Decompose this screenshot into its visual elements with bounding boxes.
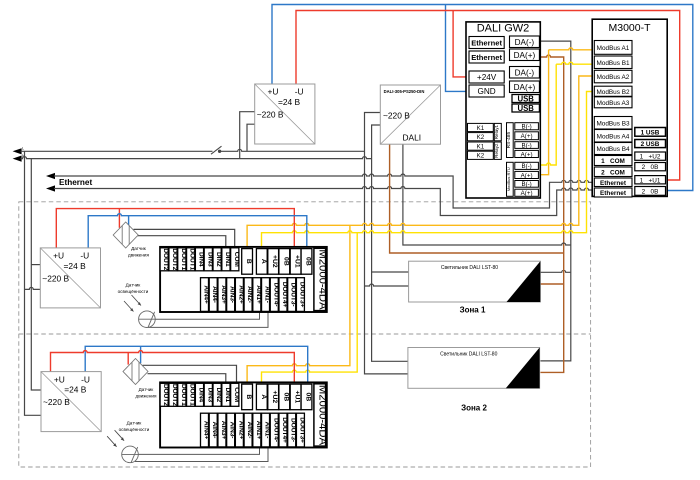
dashed divider between zone 1 and zone 2 sections [19,333,591,335]
GW2 terminal DA(+) [510,49,540,61]
zone2 M2000-4DA terminal 0В [301,384,312,410]
switch SA on L line [211,146,222,154]
I/O module zone2 M2000-4DA: M2000-4DA outline [160,382,327,447]
svg-text:DA(+): DA(+) [514,83,536,92]
wire: middle light sensor to AIN1+ [155,312,259,320]
svg-text:~220 В: ~220 В [257,110,284,120]
power supply PSU2 (middle section) [40,248,100,308]
svg-text:AIN1-: AIN1- [264,422,271,439]
middle M2000-4DA terminal AIN4- (bottom row) [209,278,217,312]
svg-text:DA(+): DA(+) [514,51,536,60]
wire: blue +U of PSU1 up over top to M3000-T 2 0B [272,5,693,191]
GW2 relay1 label [494,123,501,140]
GW2 relay contact K1 [468,142,494,150]
wire: N branch to PSU2 upper input [31,264,40,266]
M3000-T terminal 1 COM [594,156,632,166]
svg-text:ModBus B1: ModBus B1 [596,60,629,67]
svg-text:+U2: +U2 [271,391,278,404]
svg-text:0В: 0В [282,257,289,266]
svg-text:AIN4+: AIN4+ [203,285,210,304]
middle M2000-4DA terminal 0В [279,249,290,275]
svg-text:B(-): B(-) [521,181,531,188]
GW2 RS-485 terminal B(-) [515,123,539,130]
wire: red -U of PSU1 up over top to M3000-T 1 +U1 [296,11,680,181]
M3000-T terminal 1 +U1 [635,176,666,184]
middle M2000-4DA title M2000-4DA [314,248,326,310]
middle M2000-4DA terminal DOUT3+ (bottom row) [296,278,304,312]
wire: DA(+) brown bus from GW2 down to lamp2 [540,55,563,372]
svg-text:=24 В: =24 В [64,385,87,395]
wire: yellow vertical into GW2 ModBus RTU B(-) [540,64,556,165]
svg-text:ModBus A2: ModBus A2 [597,74,630,81]
wire: N line from feeder arrow to vertical drop at x=371.6 [21,157,372,159]
wire: L vertical at left edge down to PSU3 lower input [25,151,42,415]
svg-text:DOUT3+: DOUT3+ [298,282,305,308]
svg-text:Ethernet: Ethernet [471,53,502,62]
wire: red +U of PSU2 to middle M2000 +U1 [56,209,294,249]
M3000-T terminal ModBus B1 [594,56,632,69]
svg-text:AIN2+: AIN2+ [237,421,244,440]
wire: PSU1 upper input to N line [240,112,255,159]
svg-text:M2000-4DA: M2000-4DA [317,249,329,310]
M3000-T terminal ModBus B3 [594,117,632,130]
M3000-T terminal 2 0В [635,163,666,171]
wire: PSU1 lower input to L line [247,124,255,151]
svg-text:DIN2: DIN2 [215,252,222,267]
luminaire zone 1: Светильник DALI LST-80 [409,261,541,302]
zone2 M2000-4DA terminal DOUT3+ (bottom row) [296,413,304,447]
svg-text:Relay1: Relay1 [494,125,499,140]
svg-text:L: L [22,146,24,150]
middle M2000-4DA terminal AIN4+ (bottom row) [201,278,209,312]
middle M2000-4DA terminal AIN2- (bottom row) [244,278,252,312]
GW2 ModBus RTU terminal B(-) [515,181,539,188]
svg-text:2 COM: 2 COM [601,169,625,176]
wire: DA(-) branch to lamp1 [540,270,571,272]
svg-text:0В: 0В [305,393,312,402]
svg-text:Ethernet: Ethernet [471,38,502,47]
svg-text:DOUT4+: DOUT4+ [281,282,288,308]
zone2 M2000-4DA terminal +U2 [268,384,279,410]
svg-text:A(+): A(+) [521,190,533,197]
middle M2000-4DA terminal A [256,249,267,275]
svg-text:DOUT1: DOUT1 [180,248,187,270]
svg-text:освещённости: освещённости [119,427,150,432]
svg-text:движения: движения [136,394,157,399]
middle M2000-4DA terminal DIN1 (top row) [222,248,230,271]
svg-text:ModBus RTU: ModBus RTU [506,167,511,191]
svg-text:DALI: DALI [403,133,422,143]
GW2 terminal Ethernet [469,51,504,63]
wire: bottom light sensor to AIN1+ [138,447,259,454]
zone2 M2000-4DA terminal COM (top row) [231,383,239,406]
middle M2000-4DA terminal AIN1+ (bottom row) [253,278,261,312]
svg-text:ModBus A3: ModBus A3 [597,100,630,107]
svg-text:-U: -U [81,374,90,384]
svg-text:GND: GND [477,87,495,96]
svg-text:DOUT4-: DOUT4- [272,283,279,307]
svg-text:M2000-4DA: M2000-4DA [317,385,329,446]
middle M2000-4DA terminal DOUT2 (top row) [160,248,168,271]
svg-text:0В: 0В [282,393,289,402]
svg-text:Ethernet: Ethernet [59,178,92,187]
svg-text:~220 В: ~220 В [383,110,410,120]
GW2 RS-485 port label [507,123,514,158]
svg-text:DOUT2: DOUT2 [162,248,169,270]
zone2 M2000-4DA terminal +U1 [290,384,301,410]
wire: bottom light sensor to AIN1- [135,447,268,462]
svg-text:M3000-T: M3000-T [608,22,651,34]
middle M2000-4DA terminal +U1 [290,249,301,275]
svg-text:DOUT3-: DOUT3- [290,418,297,442]
svg-text:K2: K2 [477,153,485,160]
svg-text:~220 В: ~220 В [42,273,69,283]
svg-text:A(+): A(+) [521,133,533,140]
wire: L vertical x=364.5 from DALI PS input down to lamp2 lower input [365,113,408,374]
svg-text:AIN3-: AIN3- [229,422,236,439]
Ethernet line 2 arrow [46,185,55,191]
GW2 terminal DA(-) [510,67,540,79]
svg-text:Датчик: Датчик [139,387,155,392]
wire: bottom motion sensor to COM [143,365,237,383]
svg-text:AIN2-: AIN2- [246,286,253,303]
svg-text:K1: K1 [477,125,485,132]
DALI power supply DALI-305-PS250-DIN [380,85,440,144]
zone2 M2000-4DA terminal B [242,384,253,410]
zone2 M2000-4DA terminal 0В [279,384,290,410]
zone2 M2000-4DA terminal DOUT1 (top row) [187,383,195,406]
svg-text:2 0В: 2 0В [642,188,659,195]
svg-text:ModBus B3: ModBus B3 [596,120,629,127]
M3000-T terminal Ethernet [594,188,632,197]
svg-text:A(+): A(+) [521,172,533,179]
GW2 RS-485 terminal B(-) [515,142,539,149]
I/O module middle M2000-4DA: M2000-4DA outline [160,247,327,312]
svg-text:K1: K1 [477,143,485,150]
svg-text:1 +U2: 1 +U2 [640,154,661,161]
luminaire zone 2: Светильник DALI LST-80 [408,348,540,389]
svg-text:DIN4: DIN4 [197,252,204,267]
zone2 M2000-4DA terminal DOUT2 (top row) [169,383,177,406]
M3000-T terminal 2 USB [635,140,666,148]
svg-text:+U: +U [54,374,65,384]
GW2 RS-485 terminal A(+) [515,132,539,140]
zone2 M2000-4DA terminal DIN2 (top row) [213,383,221,406]
motion sensor bottom (Датчик движения) [123,359,157,399]
middle M2000-4DA terminal AIN3- (bottom row) [227,278,235,312]
wire: L line from feeder arrow to switch [21,150,213,152]
svg-text:0В: 0В [305,257,312,266]
svg-text:B(-): B(-) [521,163,531,170]
power supply PSU1 (top, 220V to 24V) [255,84,315,144]
zone2 M2000-4DA terminal DOUT4+ (bottom row) [279,413,287,447]
zone2 M2000-4DA terminal DIN3 (top row) [204,383,212,406]
svg-text:AIN1+: AIN1+ [255,285,262,304]
wire: blue branch down to motion sensor (bottom) [140,346,142,363]
motion sensor middle (Датчик движения) [113,222,149,258]
GW2 terminal GND [469,85,504,97]
svg-text:DOUT3-: DOUT3- [290,283,297,307]
zone2 M2000-4DA terminal AIN3+ (bottom row) [218,413,226,447]
wire: red branch down to DALI GW2 +24V [453,11,469,77]
wire: bottom motion sensor to DIN1 [148,374,226,384]
zone2 M2000-4DA terminal DIN1 (top row) [222,383,230,406]
wire: orange vertical into GW2 ModBus RTU A(+) [540,50,548,175]
wire: N vertical x=371.6 from DALI PS input down to lamp2 upper input [372,125,408,361]
svg-text:Зона 2: Зона 2 [461,404,487,413]
wire: red branch down to motion sensor (bottom) [127,353,129,365]
svg-text:RS-485: RS-485 [506,132,512,149]
svg-text:DIN3: DIN3 [206,252,213,267]
GW2 terminal +24V [469,71,504,83]
middle M2000-4DA terminal DOUT4+ (bottom row) [279,278,287,312]
light sensor bottom (Датчик освещённости) [107,421,150,463]
svg-text:Датчик: Датчик [131,246,147,251]
middle M2000-4DA terminal 0В [301,249,312,275]
svg-text:DOUT4+: DOUT4+ [281,417,288,443]
svg-text:AIN4-: AIN4- [211,422,218,439]
svg-text:ModBus B2: ModBus B2 [596,89,629,96]
svg-text:+24V: +24V [477,73,497,82]
dashed enclosure: automation cabinet boundary [19,202,591,467]
gateway module U1: DALI GW2 [466,22,540,198]
middle M2000-4DA terminal DIN4 (top row) [195,248,203,271]
zone2 M2000-4DA terminal AIN1- (bottom row) [262,413,270,447]
zone2 M2000-4DA terminal AIN2+ (bottom row) [235,413,243,447]
wire: N vertical at left edge down to PSU3 upper input [31,159,41,390]
svg-text:ModBus A4: ModBus A4 [597,133,630,140]
svg-text:+U: +U [268,87,279,97]
GW2 ModBus RTU terminal A(+) [515,171,539,178]
svg-text:освещённости: освещённости [118,289,149,294]
svg-text:1 +U1: 1 +U1 [640,177,661,184]
zone2 M2000-4DA terminal AIN2- (bottom row) [244,413,252,447]
wire: DA(-) black bus from GW2 over to x=570.8 down to lamp2 [540,41,571,361]
svg-text:A: A [260,394,267,399]
zone2 M2000-4DA terminal DIN4 (top row) [195,383,203,406]
svg-text:AIN2+: AIN2+ [237,285,244,304]
middle M2000-4DA terminal COM (top row) [231,248,239,271]
svg-text:DOUT1: DOUT1 [180,384,187,406]
wire: orange branch down to zone2 M2000 B [247,225,350,384]
GW2 terminal USB [512,104,539,112]
middle M2000-4DA terminal DOUT3- (bottom row) [288,278,296,312]
svg-text:B(-): B(-) [521,142,531,149]
svg-text:DOUT2: DOUT2 [171,248,178,270]
wire: L line from switch to vertical drop at x=364.5 [220,149,365,151]
middle M2000-4DA terminal +U2 [268,249,279,275]
zone2 M2000-4DA terminal DOUT4- (bottom row) [270,413,278,447]
wire: DALI PS brown output joins DA(+) bus [390,144,564,253]
svg-text:Ethernet: Ethernet [600,180,627,187]
M3000-T terminal ModBus B2 [594,86,632,96]
svg-text:ModBus B4: ModBus B4 [596,146,629,153]
GW2 relay contact K1 [468,123,494,131]
zone2 M2000-4DA terminal AIN4- (bottom row) [209,413,217,447]
svg-text:DA(-): DA(-) [515,38,535,47]
middle M2000-4DA terminal DIN3 (top row) [204,248,212,271]
svg-text:1 USB: 1 USB [641,129,660,136]
svg-text:DIN2: DIN2 [215,387,222,402]
wire: middle motion sensor to DIN1 [138,236,226,248]
svg-text:DOUT4-: DOUT4- [272,418,279,442]
middle M2000-4DA terminal DOUT2 (top row) [169,248,177,271]
svg-text:DIN1: DIN1 [224,252,231,267]
M3000-T terminal 1 USB [635,128,666,137]
wire: yellow RS-485 A bus from M3000 ModBus B2 down and across to middle M2000 A [262,92,596,249]
M3000-T terminal ModBus B4 [594,143,632,155]
svg-text:-U: -U [295,87,304,97]
GW2 RS-485 terminal A(+) [515,150,539,157]
middle M2000-4DA terminal DOUT4- (bottom row) [270,278,278,312]
svg-text:DIN4: DIN4 [197,387,204,402]
svg-text:B: B [245,259,252,264]
wire: middle light sensor to AIN1- [148,312,268,328]
svg-text:DOUT2: DOUT2 [162,384,169,406]
GW2 terminal DA(+) [510,81,540,93]
svg-text:DIN3: DIN3 [206,387,213,402]
M3000-T terminal 2 0В [635,187,666,196]
svg-text:1 COM: 1 COM [601,158,625,165]
GW2 terminal USB [512,95,539,103]
svg-text:DIN1: DIN1 [224,387,231,402]
svg-text:DOUT1: DOUT1 [189,384,196,406]
svg-text:Ethernet: Ethernet [600,190,627,197]
svg-text:=24 В: =24 В [278,97,301,107]
svg-text:USB: USB [517,104,534,113]
svg-text:+U: +U [53,251,64,261]
svg-text:~220 В: ~220 В [43,397,70,407]
wire: Ethernet line 2 from arrow around below DALI GW2 to M3000-T Ethernet [54,187,596,216]
mains N feeder arrow [13,156,22,162]
svg-text:A(+): A(+) [521,151,533,158]
wire: mains branch to lamp1 upper input [372,271,409,273]
svg-text:DOUT1: DOUT1 [189,248,196,270]
zone2 M2000-4DA terminal AIN1+ (bottom row) [253,413,261,447]
wire: orange RS-485 B bus from M3000 ModBus A2 down and across to middle M2000 B [247,76,595,249]
svg-text:Relay2: Relay2 [494,143,499,158]
svg-text:AIN3-: AIN3- [229,286,236,303]
middle M2000-4DA terminal AIN1- (bottom row) [262,278,270,312]
svg-text:A: A [260,259,267,264]
zone2 M2000-4DA terminal AIN3- (bottom row) [227,413,235,447]
svg-text:=24 В: =24 В [64,261,87,271]
svg-text:DALI-305-PS250-DIN: DALI-305-PS250-DIN [384,89,425,94]
wire: L branch to PSU2 lower input (hops N vertical) [25,287,41,289]
svg-text:USB: USB [517,94,534,103]
zone2 M2000-4DA terminal A [256,384,267,410]
svg-text:AIN3+: AIN3+ [220,285,227,304]
svg-text:Светильник DALI LST-80: Светильник DALI LST-80 [441,265,498,271]
M3000-T terminal ModBus A4 [594,130,632,143]
GW2 ModBus RTU terminal A(+) [515,189,539,196]
svg-text:DALI GW2: DALI GW2 [477,23,530,35]
GW2 ModBus RTU terminal B(-) [515,162,539,169]
svg-text:2 0В: 2 0В [642,164,659,171]
wire: orange ModBus A1 of M3000 to GW2 ModBus RTU A(+) [549,48,596,50]
GW2 relay2 label [494,142,501,159]
svg-text:B: B [245,394,252,399]
middle M2000-4DA terminal AIN2+ (bottom row) [235,278,243,312]
middle M2000-4DA terminal DOUT1 (top row) [187,248,195,271]
svg-text:2 USB: 2 USB [641,141,660,148]
M3000-T terminal 2 COM [594,167,632,177]
svg-text:AIN3+: AIN3+ [220,421,227,440]
wire: Ethernet line 1 from arrow around below DALI GW2 to M3000-T Ethernet [54,174,596,208]
svg-text:AIN1-: AIN1- [264,286,271,303]
GW2 terminal DA(-) [510,36,540,48]
GW2 terminal Ethernet [469,37,504,49]
zone2 M2000-4DA terminal AIN4+ (bottom row) [201,413,209,447]
M3000-T terminal ModBus A3 [594,97,632,108]
M3000-T terminal ModBus A1 [594,41,632,55]
svg-text:Зона 1: Зона 1 [460,306,486,315]
svg-text:COM: COM [233,387,240,403]
zone2 M2000-4DA terminal DOUT3- (bottom row) [288,413,296,447]
svg-text:+U2: +U2 [271,255,278,268]
Ethernet line 1 arrow [46,173,55,179]
wire: red branch down to motion sensor (middle) [118,209,120,228]
wire: middle motion sensor to COM [134,229,235,248]
wire: DALI PS black output joins DA(-) bus [403,144,571,245]
wire: DA(+) brown branch to lamp1 [540,283,563,285]
wire: yellow branch down to zone2 M2000 A [262,233,358,384]
M3000-T terminal Ethernet [594,178,632,187]
svg-text:K2: K2 [477,134,485,141]
wire: mains branch to lamp1 lower input [365,284,409,286]
controller U2: M3000-T [592,19,667,196]
wire: blue branch down to DALI GW2 GND [446,5,470,92]
svg-text:Датчик: Датчик [126,283,142,288]
middle M2000-4DA terminal AIN3+ (bottom row) [218,278,226,312]
wire: blue branch down to motion sensor (middle) [128,216,130,228]
power supply PSU3 (bottom section) [41,372,101,432]
svg-text:Датчик: Датчик [127,421,143,426]
svg-text:+U1: +U1 [294,255,301,268]
svg-text:Светильник DALI LST-80: Светильник DALI LST-80 [440,352,497,358]
GW2 relay contact K2 [468,133,494,141]
light sensor middle (Датчик освещённости) [118,283,156,328]
middle M2000-4DA terminal DIN2 (top row) [213,248,221,271]
svg-text:-U: -U [80,251,89,261]
M3000-T terminal ModBus A2 [594,70,632,83]
middle M2000-4DA terminal B [242,249,253,275]
GW2 ModBus RTU port label [507,162,514,196]
svg-text:COM: COM [233,252,240,268]
zone2 M2000-4DA terminal DOUT1 (top row) [178,383,186,406]
wire: red +U of PSU3 to zone2 M2000 +U1 [51,351,295,385]
svg-text:AIN4+: AIN4+ [203,421,210,440]
GW2 relay contact K2 [468,151,494,159]
svg-text:DOUT2: DOUT2 [171,384,178,406]
svg-text:ModBus A1: ModBus A1 [597,45,630,52]
wire: yellow ModBus B1 of M3000 to GW2 ModBus RTU B(-) [556,62,595,64]
middle M2000-4DA terminal DOUT1 (top row) [178,248,186,271]
svg-text:AIN4-: AIN4- [211,286,218,303]
svg-text:AIN2-: AIN2- [246,422,253,439]
svg-text:+U1: +U1 [294,391,301,404]
M3000-T terminal 1 +U2 [635,152,666,160]
svg-text:AIN1+: AIN1+ [255,421,262,440]
wire: blue -U of PSU2 to middle M2000 0B [88,214,307,249]
svg-text:DOUT3+: DOUT3+ [298,417,305,443]
mains L feeder arrow [13,148,22,154]
svg-text:B(-): B(-) [521,124,531,131]
svg-text:движения: движения [128,253,149,258]
zone2 M2000-4DA title M2000-4DA [314,384,326,446]
svg-text:DA(-): DA(-) [515,68,535,77]
zone2 M2000-4DA terminal DOUT2 (top row) [160,383,168,406]
